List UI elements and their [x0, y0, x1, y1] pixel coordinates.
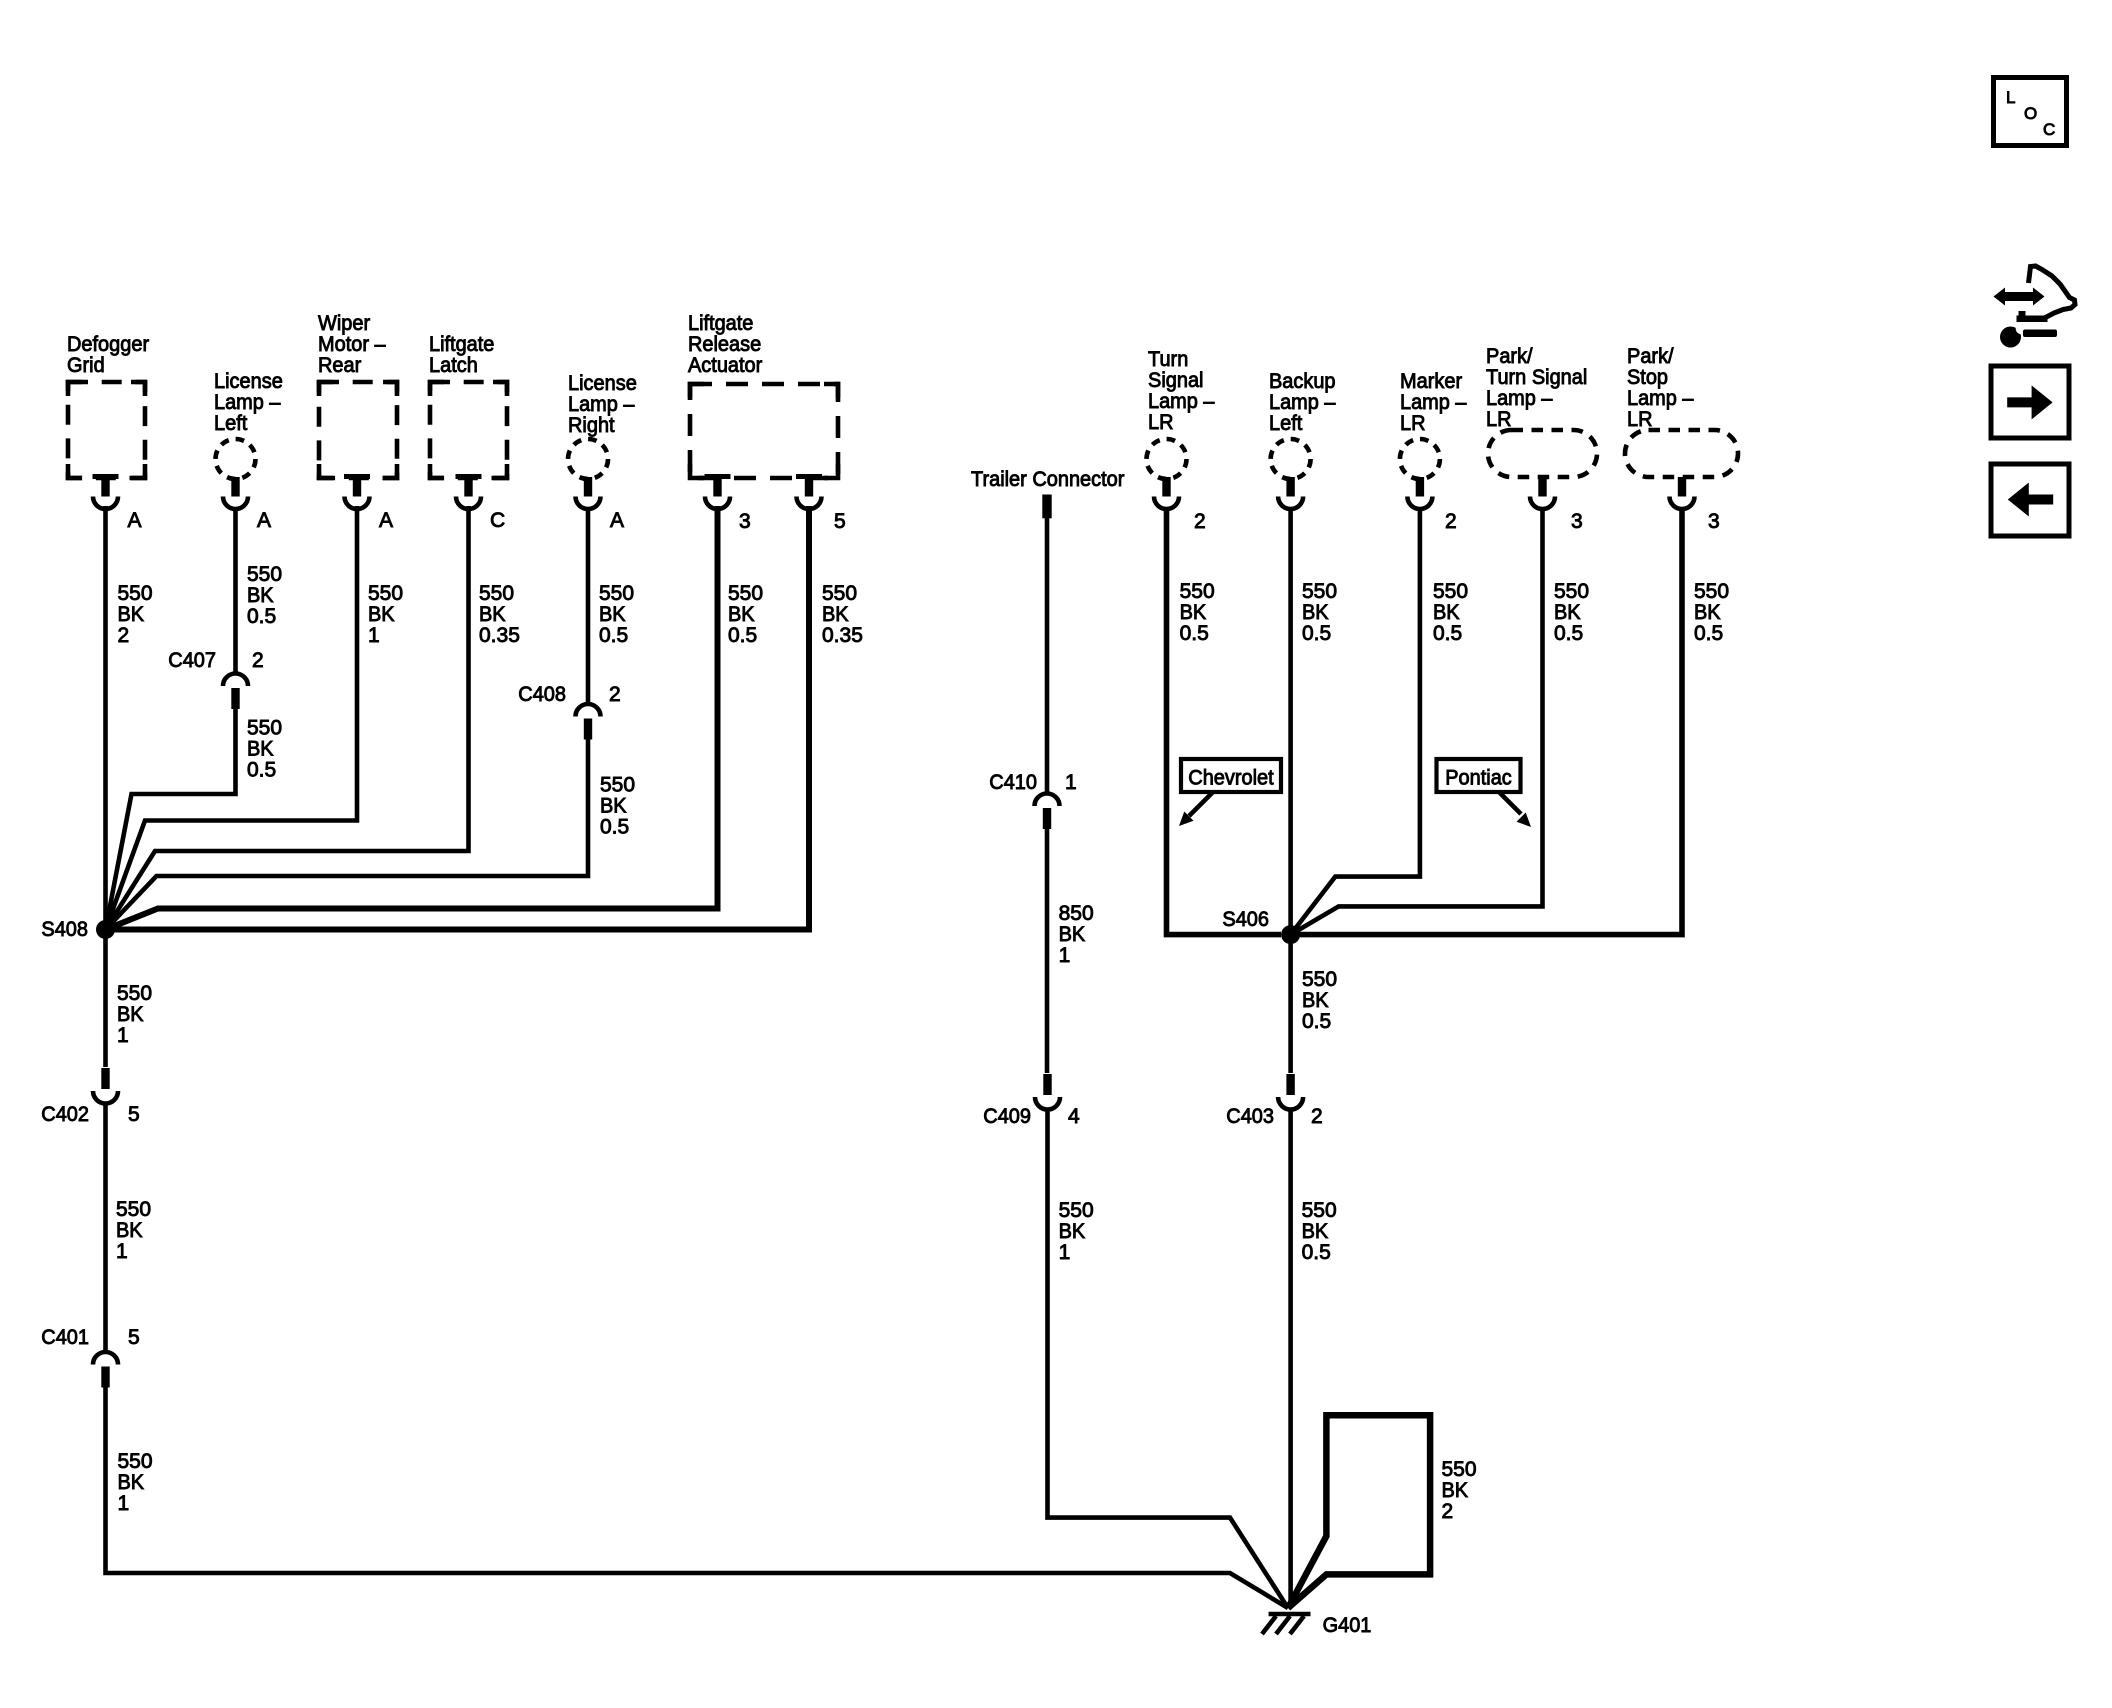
svg-text:BK: BK: [1302, 989, 1329, 1012]
splice S408 label: [41, 918, 88, 941]
Chevrolet callout box: [1181, 759, 1281, 792]
wire: defogger grid to S408: [103, 506, 108, 930]
svg-text:BK: BK: [247, 738, 274, 761]
svg-text:BK: BK: [1302, 1220, 1329, 1243]
backup lamp left component circle: [1269, 370, 1336, 479]
C408 cavity label 2: [609, 683, 621, 706]
svg-text:LR: LR: [1486, 408, 1512, 431]
svg-text:3: 3: [1571, 510, 1583, 533]
connector C407 label: [168, 649, 216, 672]
svg-text:Lamp –: Lamp –: [1148, 390, 1215, 413]
license lamp right component circle: [568, 372, 637, 479]
svg-text:550: 550: [599, 582, 634, 605]
svg-text:550: 550: [247, 717, 282, 740]
splice S406 label: [1222, 908, 1269, 931]
LOC reference box: [1994, 78, 2067, 146]
wire label 550 BK 0.5 (below C408): [600, 774, 635, 839]
park/turn signal pin connector: [1530, 477, 1555, 509]
svg-text:550: 550: [1694, 580, 1729, 603]
svg-text:2: 2: [1445, 510, 1457, 533]
wire label 550 BK 1 (trailer to ground): [1059, 1199, 1094, 1264]
connector C407 symbol: [223, 673, 248, 709]
wire label 550 BK 0.5 (below C407): [247, 717, 282, 782]
svg-text:Lamp –: Lamp –: [1400, 391, 1467, 414]
svg-text:Release: Release: [688, 333, 761, 356]
park/stop pin connector: [1670, 477, 1695, 509]
svg-text:550: 550: [1302, 1199, 1337, 1222]
defogger grid pin connector: [93, 474, 119, 509]
svg-text:550: 550: [822, 582, 857, 605]
svg-text:550: 550: [600, 774, 635, 797]
svg-text:2: 2: [609, 683, 621, 706]
svg-text:BK: BK: [1433, 601, 1460, 624]
svg-text:Lamp –: Lamp –: [1486, 387, 1553, 410]
svg-text:550: 550: [1302, 968, 1337, 991]
wiper motor rear component box: [318, 312, 397, 478]
svg-text:2: 2: [1311, 1105, 1323, 1128]
svg-text:Lamp –: Lamp –: [1269, 391, 1336, 414]
wire label 550 BK 0.5 (backup): [1302, 580, 1337, 645]
svg-text:0.5: 0.5: [728, 624, 757, 647]
liftgate release actuator component box: [688, 312, 838, 478]
wire label 550 BK 0.5 (park/turn): [1554, 580, 1589, 645]
svg-text:0.5: 0.5: [1302, 622, 1331, 645]
svg-text:A: A: [610, 509, 624, 532]
svg-text:Park/: Park/: [1627, 345, 1674, 368]
svg-text:Pontiac: Pontiac: [1445, 767, 1512, 790]
svg-text:4: 4: [1068, 1105, 1080, 1128]
wire: trailer connector to C410: [1045, 518, 1050, 794]
backward arrow box: [1991, 464, 2069, 536]
svg-text:550: 550: [1302, 580, 1337, 603]
svg-text:C408: C408: [518, 683, 566, 706]
svg-text:BK: BK: [118, 603, 145, 626]
ground G401 symbol: [1262, 1614, 1311, 1634]
svg-text:BK: BK: [117, 1003, 144, 1026]
svg-text:License: License: [568, 372, 637, 395]
svg-text:0.5: 0.5: [247, 759, 276, 782]
svg-text:550: 550: [479, 582, 514, 605]
svg-text:Lamp –: Lamp –: [214, 391, 281, 414]
svg-text:Wiper: Wiper: [318, 312, 370, 335]
pin label 3 (park/stop): [1708, 510, 1720, 533]
svg-text:C407: C407: [168, 649, 216, 672]
svg-text:C409: C409: [983, 1105, 1031, 1128]
svg-text:Actuator: Actuator: [688, 354, 762, 377]
svg-text:O: O: [2024, 104, 2037, 123]
svg-text:550: 550: [1180, 580, 1215, 603]
splice S406 node: [1281, 925, 1300, 944]
connector C408 symbol: [576, 704, 601, 740]
Pontiac callout arrow: [1499, 792, 1531, 827]
svg-text:550: 550: [1442, 1458, 1477, 1481]
pin label 2 (marker): [1445, 510, 1457, 533]
svg-text:BK: BK: [1059, 923, 1086, 946]
svg-text:0.5: 0.5: [1554, 622, 1583, 645]
svg-text:A: A: [379, 509, 393, 532]
svg-text:550: 550: [1059, 1199, 1094, 1222]
svg-text:850: 850: [1059, 902, 1094, 925]
wire label 550 BK 0.5 (pin 3): [728, 582, 763, 647]
wire label 550 BK 1 (S408 to C402): [117, 982, 152, 1047]
license lamp right pin connector: [576, 477, 601, 509]
license lamp left pin connector: [223, 477, 248, 509]
pin label 5 (liftgate release): [834, 510, 846, 533]
connector C401 symbol: [93, 1352, 118, 1387]
svg-text:BK: BK: [1059, 1220, 1086, 1243]
turn signal lamp LR component circle: [1147, 348, 1215, 479]
svg-text:2: 2: [1194, 510, 1206, 533]
svg-text:BK: BK: [116, 1219, 143, 1242]
svg-text:0.5: 0.5: [1694, 622, 1723, 645]
svg-text:C: C: [490, 509, 505, 532]
wire: C410 to C409, 850 BK 1: [1045, 828, 1050, 1073]
pin label A (license right): [610, 509, 624, 532]
liftgate release actuator pin 3 connector: [705, 474, 731, 509]
liftgate latch component box: [429, 333, 507, 478]
svg-text:BK: BK: [368, 603, 395, 626]
trailer connector stub: [1042, 495, 1051, 519]
pin label 2 (turn signal): [1194, 510, 1206, 533]
wire label 550 BK 1 (C402 to C401): [116, 1198, 151, 1263]
wire: C401 to G401, 550 BK 1: [106, 1386, 1289, 1608]
wire: liftgate latch to S408: [106, 506, 469, 930]
svg-text:BK: BK: [1302, 601, 1329, 624]
svg-text:Signal: Signal: [1148, 369, 1204, 392]
svg-text:Backup: Backup: [1269, 370, 1336, 393]
liftgate latch pin connector: [456, 474, 482, 509]
svg-text:1: 1: [118, 1492, 130, 1515]
svg-text:BK: BK: [479, 603, 506, 626]
svg-text:1: 1: [116, 1240, 128, 1263]
wire label 850 BK 1: [1059, 902, 1094, 967]
svg-text:S408: S408: [41, 918, 88, 941]
marker lamp pin connector: [1407, 477, 1432, 509]
wire loop 550 BK 2 at G401: [1288, 1415, 1430, 1608]
svg-text:Grid: Grid: [67, 354, 105, 377]
svg-text:L: L: [2006, 88, 2015, 107]
wire: S408 to C402, 550 BK 1: [103, 930, 108, 1068]
wire: C407 to S408: [106, 708, 236, 930]
svg-text:1: 1: [1059, 1241, 1071, 1264]
C402 cavity label 5: [128, 1103, 140, 1126]
wire: turn signal lamp to S406: [1167, 507, 1282, 935]
pin label A (defogger): [128, 509, 142, 532]
svg-text:5: 5: [128, 1326, 140, 1349]
wire label 550 BK 0.5 (C403 to ground): [1302, 1199, 1337, 1264]
wire label 550 BK 0.5 (S406 to C403): [1302, 968, 1337, 1033]
svg-text:Liftgate: Liftgate: [688, 312, 753, 335]
wire label 550 BK 0.5 (license left upper): [247, 563, 282, 628]
pin label C (latch): [490, 509, 505, 532]
svg-text:550: 550: [728, 582, 763, 605]
pin label 3 (liftgate release): [739, 510, 751, 533]
C409 cavity label 4: [1068, 1105, 1080, 1128]
wire: wiper motor to S408: [106, 506, 358, 930]
splice S408 node: [96, 920, 115, 939]
svg-text:0.5: 0.5: [1180, 622, 1209, 645]
license lamp left component circle: [214, 370, 283, 479]
C401 cavity label 5: [128, 1326, 140, 1349]
Pontiac callout box: [1437, 759, 1521, 792]
svg-text:0.5: 0.5: [247, 605, 276, 628]
svg-text:Lamp –: Lamp –: [1627, 387, 1694, 410]
svg-text:C402: C402: [41, 1103, 89, 1126]
wire label 550 BK 0.35 (latch): [479, 582, 520, 647]
connector C403 label: [1226, 1105, 1274, 1128]
ground G401 label: [1323, 1614, 1372, 1637]
wiper motor pin connector: [344, 474, 370, 509]
svg-text:C410: C410: [989, 771, 1037, 794]
svg-text:1: 1: [117, 1024, 129, 1047]
turn signal lamp pin connector: [1154, 477, 1179, 509]
wire label 550 BK 2 (ground loop): [1442, 1458, 1477, 1523]
svg-text:A: A: [128, 509, 142, 532]
svg-text:0.5: 0.5: [599, 624, 628, 647]
svg-text:LR: LR: [1400, 412, 1426, 435]
svg-text:A: A: [257, 509, 271, 532]
wire: license lamp right to C408: [586, 507, 591, 704]
svg-text:LR: LR: [1148, 411, 1174, 434]
svg-text:LR: LR: [1627, 408, 1653, 431]
svg-text:BK: BK: [600, 795, 627, 818]
wire label 550 BK 1 (wiper): [368, 582, 403, 647]
svg-text:5: 5: [834, 510, 846, 533]
svg-text:BK: BK: [822, 603, 849, 626]
svg-text:BK: BK: [1554, 601, 1581, 624]
svg-text:Lamp –: Lamp –: [568, 393, 635, 416]
svg-text:License: License: [214, 370, 283, 393]
wire: liftgate release pin 5 to S408: [106, 506, 810, 930]
svg-text:Left: Left: [1269, 412, 1302, 435]
wire: license lamp left to C407: [233, 507, 238, 674]
svg-text:550: 550: [116, 1198, 151, 1221]
svg-text:BK: BK: [1442, 1479, 1469, 1502]
svg-text:550: 550: [117, 982, 152, 1005]
connector C408 label: [518, 683, 566, 706]
service/adjust icon (car outline with arrows and wrench): [1994, 266, 2076, 348]
svg-text:3: 3: [739, 510, 751, 533]
svg-text:1: 1: [1065, 771, 1077, 794]
connector C402 symbol: [93, 1068, 118, 1103]
wire: park/stop lamp to S406: [1291, 507, 1682, 935]
svg-text:0.5: 0.5: [600, 816, 629, 839]
svg-text:550: 550: [368, 582, 403, 605]
svg-text:BK: BK: [728, 603, 755, 626]
svg-text:0.5: 0.5: [1302, 1010, 1331, 1033]
svg-text:Stop: Stop: [1627, 366, 1668, 389]
svg-text:550: 550: [1554, 580, 1589, 603]
svg-text:BK: BK: [1694, 601, 1721, 624]
connector C403 symbol: [1278, 1074, 1303, 1109]
backup lamp pin connector: [1278, 477, 1303, 509]
svg-text:BK: BK: [1180, 601, 1207, 624]
wire: park/turn lamp to S406: [1291, 507, 1543, 935]
wire: marker lamp to S406: [1291, 507, 1420, 935]
svg-text:2: 2: [1442, 1500, 1454, 1523]
svg-text:BK: BK: [599, 603, 626, 626]
wire label 550 BK 0.5 (license right): [599, 582, 634, 647]
pin label A (license left): [257, 509, 271, 532]
pin label 3 (park/turn): [1571, 510, 1583, 533]
connector C402 label: [41, 1103, 89, 1126]
defogger grid component box: [67, 333, 149, 478]
svg-text:550: 550: [247, 563, 282, 586]
svg-text:BK: BK: [247, 584, 274, 607]
svg-text:0.5: 0.5: [1433, 622, 1462, 645]
svg-text:Turn: Turn: [1148, 348, 1188, 371]
Chevrolet callout arrow: [1179, 792, 1213, 826]
svg-text:C401: C401: [41, 1326, 89, 1349]
svg-text:0.35: 0.35: [822, 624, 863, 647]
svg-text:Chevrolet: Chevrolet: [1188, 767, 1274, 790]
svg-text:Marker: Marker: [1400, 370, 1462, 393]
svg-text:Trailer Connector: Trailer Connector: [971, 468, 1124, 491]
wire: backup lamp through S406 to C403: [1288, 507, 1293, 1073]
svg-text:Liftgate: Liftgate: [429, 333, 494, 356]
connector C409 symbol: [1035, 1074, 1060, 1109]
svg-text:Right: Right: [568, 414, 615, 437]
connector C401 label: [41, 1326, 89, 1349]
marker lamp LR component circle: [1400, 370, 1467, 479]
svg-text:C: C: [2043, 120, 2055, 139]
svg-text:550: 550: [118, 1450, 153, 1473]
svg-text:550: 550: [118, 582, 153, 605]
svg-text:Defogger: Defogger: [67, 333, 149, 356]
svg-text:Motor –: Motor –: [318, 333, 386, 356]
svg-text:Left: Left: [214, 412, 247, 435]
wire: C402 to C401, 550 BK 1: [103, 1103, 108, 1352]
park/turn signal lamp LR component stadium: [1486, 345, 1597, 477]
C403 cavity label 2: [1311, 1105, 1323, 1128]
connector C409 label: [983, 1105, 1031, 1128]
svg-text:Turn Signal: Turn Signal: [1486, 366, 1587, 389]
C407 cavity label 2: [252, 649, 264, 672]
wire: C408 to S408: [106, 738, 589, 930]
svg-text:5: 5: [128, 1103, 140, 1126]
wire label 550 BK 0.5 (turn signal): [1180, 580, 1215, 645]
forward arrow box: [1991, 366, 2069, 438]
connector C410 label: [989, 771, 1037, 794]
svg-text:C403: C403: [1226, 1105, 1274, 1128]
wire: C409 to G401, 550 BK 1: [1048, 1109, 1289, 1608]
svg-text:0.5: 0.5: [1302, 1241, 1331, 1264]
svg-text:0.35: 0.35: [479, 624, 520, 647]
wire label 550 BK 0.5 (marker): [1433, 580, 1468, 645]
park/stop lamp LR component stadium: [1625, 345, 1738, 477]
connector C410 symbol: [1035, 793, 1060, 829]
wire label 550 BK 2 (defogger): [118, 582, 153, 647]
wire label 550 BK 0.5 (park/stop): [1694, 580, 1729, 645]
svg-text:550: 550: [1433, 580, 1468, 603]
wire: C403 to G401, 550 BK 0.5: [1288, 1109, 1293, 1605]
svg-text:1: 1: [368, 624, 380, 647]
svg-text:Latch: Latch: [429, 354, 478, 377]
svg-text:BK: BK: [118, 1471, 145, 1494]
svg-text:1: 1: [1059, 944, 1071, 967]
pin label A (wiper): [379, 509, 393, 532]
liftgate release actuator pin 5 connector: [796, 474, 822, 509]
svg-text:G401: G401: [1323, 1614, 1372, 1637]
wire: liftgate release pin 3 to S408: [106, 506, 718, 930]
wire label 550 BK 1 (C401 to G401): [118, 1450, 153, 1515]
svg-text:S406: S406: [1222, 908, 1269, 931]
C410 cavity label 1: [1065, 771, 1077, 794]
wire label 550 BK 0.35 (pin 5): [822, 582, 863, 647]
svg-text:Rear: Rear: [318, 354, 361, 377]
svg-text:Park/: Park/: [1486, 345, 1533, 368]
trailer connector label: [971, 468, 1124, 491]
svg-text:3: 3: [1708, 510, 1720, 533]
svg-text:2: 2: [118, 624, 130, 647]
svg-text:2: 2: [252, 649, 264, 672]
